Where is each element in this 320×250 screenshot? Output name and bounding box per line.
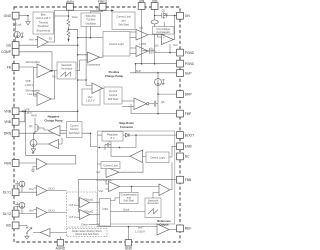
svg-text:AGND: AGND (56, 246, 66, 250)
wire dly2 out (47, 212, 67, 214)
svg-text:Vref: Vref (99, 189, 104, 193)
svg-text:Thermal: Thermal (39, 20, 49, 24)
diode D-boot (126, 133, 130, 137)
svg-text:Charge Pump: Charge Pump (44, 118, 62, 122)
transistor Q3 (142, 43, 159, 54)
svg-text:AVIN: AVIN (31, 114, 37, 118)
reference output buffer triangle (135, 224, 169, 235)
pin FREQ (top) (98, 0, 108, 10)
wire dly1 out (47, 190, 67, 192)
svg-text:Vref: Vref (88, 95, 93, 99)
svg-text:Q2: Q2 (162, 8, 166, 12)
svg-text:0.8 V: 0.8 V (70, 203, 76, 207)
svg-text:Logic: Logic (102, 207, 109, 211)
driver U-q4 (41, 126, 67, 137)
pin NC (right) (177, 153, 191, 160)
svg-text:SS: SS (96, 7, 100, 11)
svg-text:REF: REF (185, 227, 192, 231)
control logic block (step-down) (146, 152, 169, 163)
svg-text:COMP: COMP (1, 50, 12, 54)
pin SUP (right) (177, 70, 193, 77)
svg-text:DLY1: DLY1 (3, 191, 11, 195)
bd switch symbol (19, 225, 32, 239)
pin COMP (left) (1, 48, 19, 55)
diode select note dashed box (67, 229, 108, 237)
wire SUP rail (130, 72, 177, 74)
svg-text:VNB: VNB (4, 120, 12, 124)
driver U-bd (33, 229, 67, 237)
wire pgood1 to logic (90, 202, 100, 204)
svg-text:Generator: Generator (61, 67, 73, 71)
svg-text:Sawtooth: Sawtooth (61, 63, 72, 67)
current source 40uA (14, 23, 24, 38)
wire q5 driver to Q2 gate (148, 22, 164, 35)
svg-text:Converter: Converter (120, 125, 134, 129)
svg-text:Overvoltage: Overvoltage (156, 27, 170, 31)
svg-text:DLY1: DLY1 (49, 187, 56, 191)
svg-text:Shutdown: Shutdown (38, 24, 50, 28)
current limit and soft start block (boost) (112, 12, 135, 30)
svg-text:Oscillator: Oscillator (85, 22, 96, 26)
pin BOOT (right) (177, 132, 195, 139)
svg-text:Clock: Clock (123, 208, 130, 212)
wire vref amp input rail (77, 55, 79, 122)
driver U-q5 (130, 26, 148, 40)
svg-text:PGND: PGND (185, 51, 194, 55)
compensation and soft start block (120, 192, 139, 203)
wire sawtooth to comparator (76, 60, 88, 71)
wire left bus vertical (25, 111, 27, 155)
step-down section box (97, 131, 175, 224)
current sink arrow (67, 39, 69, 42)
wire cs to DRP (157, 85, 159, 97)
svg-text:500 kHz/: 500 kHz/ (86, 14, 96, 18)
IC boundary dashed border (14, 7, 180, 242)
pin VNB1 (left) (4, 108, 19, 115)
overvoltage comparator block (153, 27, 175, 35)
wire ovp input (158, 31, 162, 38)
wire GM1 out (51, 70, 57, 72)
sawtooth generator block (step-down) (145, 198, 161, 218)
op-amp U-SS (29, 36, 52, 47)
svg-text:GND: GND (4, 14, 12, 18)
wire COMP to gm node (19, 52, 52, 71)
pin DRN (left) (4, 130, 19, 137)
wire current limit (97, 163, 101, 165)
gm amplifier GM2 low gain (25, 88, 52, 114)
wire GND pin down to GS pin (15, 19, 17, 42)
svg-text:GM Amplifier: GM Amplifier (26, 60, 41, 64)
wire SW down (141, 9, 143, 63)
dly1 cap and current source (15, 181, 25, 192)
svg-text:Charge Pump: Charge Pump (105, 74, 123, 78)
dly2 cap and current source (15, 202, 25, 213)
error amp U-fbn (19, 151, 47, 172)
comparator U-dly2 (19, 208, 47, 218)
svg-text:Vref: Vref (138, 226, 143, 230)
wire FBB to error amp (78, 179, 176, 181)
wire Q6 source to FBP (157, 110, 159, 114)
svg-text:Regulator: Regulator (107, 132, 118, 136)
pin BD (left) (6, 222, 19, 229)
logic block (100, 199, 111, 227)
svg-text:Q3: Q3 (155, 43, 159, 47)
pin GND (left) (4, 12, 19, 19)
wire PGND2 rail (136, 63, 177, 65)
wire clock to sawtooth (111, 211, 146, 213)
resistor R-osc2 (67, 29, 70, 39)
pin SW (top) (138, 0, 145, 9)
svg-text:Soft Start: Soft Start (123, 199, 134, 203)
control logic block (boost) (103, 32, 130, 57)
svg-text:750 kHz: 750 kHz (86, 18, 96, 22)
pin FBB (right) (177, 176, 192, 183)
wire Q3 to PGND rail (155, 51, 177, 53)
pin REF (right) (177, 225, 192, 232)
transistor Q2 (160, 8, 169, 18)
current source neg cp (30, 133, 37, 152)
svg-text:Current Limit: Current Limit (103, 163, 118, 167)
pin AVIN (top) (66, 0, 74, 10)
pin FB (left) (7, 64, 19, 71)
regulator 8V block (102, 132, 123, 142)
svg-text:LXPN: LXPN (140, 42, 147, 46)
svg-text:Soft Start: Soft Start (108, 97, 119, 101)
pwm comparator U-pwm (87, 52, 101, 67)
pin VIN (top) (151, 0, 158, 9)
wire sup to cs (157, 73, 159, 79)
svg-text:Vref=1.213 V: Vref=1.213 V (36, 16, 51, 20)
svg-text:1.2 (6) V: 1.2 (6) V (135, 229, 145, 233)
wire ref out (169, 229, 177, 231)
svg-text:Bias: Bias (41, 13, 47, 17)
pin ON (right) (177, 12, 191, 19)
wire Q2 to ON (169, 15, 177, 17)
wire comparator to control logic (100, 52, 104, 57)
wire GND to bus (19, 15, 28, 17)
svg-text:Comparator: Comparator (87, 63, 101, 67)
wire GM2 out (51, 71, 55, 99)
svg-text:VIN: VIN (152, 0, 158, 3)
pgood1 comparator (70, 197, 94, 207)
svg-text:DLY2: DLY2 (49, 209, 56, 213)
svg-text:FBB: FBB (185, 178, 192, 182)
svg-text:and: and (121, 18, 126, 22)
wire VNB1 rail (19, 110, 78, 112)
svg-text:Control Logic: Control Logic (109, 42, 125, 46)
svg-text:VNB: VNB (4, 110, 12, 114)
wire disch (89, 223, 100, 225)
wire q7 rail (98, 147, 136, 149)
section title negative charge pump (44, 115, 62, 123)
svg-text:Circuit and Soft Start: Circuit and Soft Start (75, 232, 99, 236)
pin GD (left) (6, 42, 19, 49)
pwm comparator U-pwm2 (159, 184, 170, 196)
pin AGND (bottom) (56, 240, 66, 250)
driver U-q6 with bubble (122, 98, 149, 110)
svg-text:Vref: Vref (173, 43, 178, 47)
pin GND2 (bottom) (125, 240, 133, 250)
pin FBP (right) (177, 110, 192, 117)
wire clock rail (78, 27, 91, 55)
svg-text:SS: SS (49, 36, 53, 40)
transistor Q4 (29, 118, 41, 132)
svg-text:Control: Control (109, 93, 118, 97)
svg-text:Gosc: Gosc (72, 15, 79, 19)
sense element ellipse (151, 20, 158, 24)
svg-text:Q6: Q6 (161, 100, 165, 104)
svg-text:Control: Control (70, 127, 79, 131)
wire SS net to current limit block (48, 11, 111, 43)
driver U-cs (37, 138, 62, 149)
svg-text:GS: GS (6, 43, 12, 47)
pin DLY1 (left) (3, 189, 19, 196)
wire ref input (98, 224, 157, 227)
pin PGND1 (right) (177, 49, 195, 56)
svg-text:NC: NC (185, 155, 190, 159)
pgood2 comparator (70, 209, 94, 219)
comparator U-dly1 (19, 186, 47, 196)
wire DRN rail (19, 132, 67, 134)
wire FB vertical (19, 67, 37, 96)
error amplifier U-err (97, 178, 120, 193)
transistor Q6 (149, 98, 165, 110)
current control soft start block (pos charge pump) (104, 87, 122, 104)
wire FBB rail to pgood (76, 180, 80, 218)
wire osc node right (69, 29, 78, 37)
section title step-down converter (119, 121, 134, 129)
pgood dashed box (67, 192, 98, 227)
svg-text:0.8 V: 0.8 V (70, 215, 76, 219)
transistor Q7 (105, 138, 112, 150)
svg-text:FREQ: FREQ (98, 0, 108, 4)
svg-text:Current: Current (70, 123, 79, 127)
svg-text:Disch: Disch (82, 223, 89, 227)
svg-text:VFB: VFB (26, 79, 31, 83)
wire GS right (19, 44, 78, 46)
wire neg cp feedback (26, 154, 76, 156)
svg-text:PGood1: PGood1 (84, 197, 94, 201)
svg-text:Vref: Vref (29, 38, 34, 42)
wire fbn out (47, 155, 76, 164)
pin VNB2 (left) (4, 118, 19, 125)
svg-text:Sequencing: Sequencing (36, 28, 50, 32)
wire FREQ to oscillator (91, 10, 103, 13)
ground symbol under GND node (26, 16, 31, 25)
svg-text:1.146 V: 1.146 V (25, 83, 34, 87)
svg-text:Q4: Q4 (29, 124, 33, 128)
oscillator block (81, 13, 101, 27)
wire AVIN down (68, 10, 70, 19)
current control soft start block (neg charge pump) (67, 122, 83, 138)
vref 1.213V block (pos charge pump) (82, 89, 100, 105)
disch label (82, 223, 89, 227)
svg-text:FBN: FBN (4, 161, 11, 165)
svg-text:GND: GND (125, 246, 133, 250)
current source pos cp (155, 79, 165, 86)
sawtooth generator block (boost) (57, 62, 76, 79)
svg-text:PGND: PGND (185, 62, 194, 66)
comparator U-ilim (97, 163, 144, 178)
svg-text:DRN: DRN (4, 132, 12, 136)
pin DLY2 (left) (3, 210, 19, 217)
wire gnd2 stub (127, 227, 129, 240)
svg-text:BOOT: BOOT (185, 133, 194, 137)
svg-text:DLY2: DLY2 (3, 212, 11, 216)
wire regulator to boot with diode (97, 134, 102, 136)
overvoltage comparator U-ovp triangle (162, 35, 178, 47)
svg-text:8 V: 8 V (111, 136, 115, 140)
svg-text:Vref: Vref (29, 187, 34, 191)
driver U-lxpn (130, 42, 148, 56)
svg-text:GM Amplifier: GM Amplifier (26, 88, 41, 92)
svg-text:Current Limit: Current Limit (116, 14, 131, 18)
svg-text:AVIN: AVIN (66, 0, 74, 4)
wire VIN down through sense (154, 9, 156, 20)
svg-text:Vref: Vref (29, 209, 34, 213)
svg-text:FBP: FBP (185, 112, 192, 116)
svg-text:Comparator: Comparator (156, 30, 170, 34)
gm amplifier GM1 (25, 60, 52, 87)
svg-text:ON: ON (185, 14, 191, 18)
svg-text:40 µA: 40 µA (15, 23, 22, 27)
pin PGND2 (right) (177, 60, 195, 67)
wire pgood2 to logic (90, 214, 100, 216)
svg-text:BD: BD (6, 224, 11, 228)
current limit block (step-down) (101, 162, 120, 169)
wire agnd stub (59, 237, 61, 240)
svg-text:GS: GS (52, 75, 56, 79)
wire error amp out (120, 186, 160, 188)
svg-text:Current: Current (109, 89, 118, 93)
svg-text:Generator: Generator (147, 201, 159, 205)
svg-text:SW: SW (139, 0, 145, 3)
svg-text:Soft Start: Soft Start (69, 131, 80, 135)
wire logic to compensation (111, 198, 120, 201)
svg-text:ENB: ENB (185, 145, 193, 149)
resistor R-osc1 (67, 20, 70, 30)
section title reference output (157, 219, 171, 227)
vref amp output wire (103, 87, 105, 89)
wire control logic to ENB (169, 146, 177, 157)
svg-text:SUP: SUP (136, 69, 142, 73)
svg-text:Control Logic: Control Logic (150, 155, 166, 159)
svg-text:PGood2: PGood2 (84, 209, 94, 213)
pin FBN (left) (4, 160, 19, 167)
bias block U-bias (33, 12, 54, 34)
section title positive charge pump (105, 70, 123, 78)
svg-text:1.213 V: 1.213 V (86, 99, 95, 103)
svg-text:SUP: SUP (185, 71, 193, 75)
svg-text:DRP: DRP (185, 92, 193, 96)
wire VNB2 up (19, 111, 25, 122)
pin ENB (right) (177, 143, 193, 150)
driver U-q7 (111, 148, 146, 163)
svg-text:Soft Start: Soft Start (118, 23, 129, 27)
vref amplifier U-vref triangle (92, 83, 103, 94)
pin DRP (right) (177, 91, 193, 98)
